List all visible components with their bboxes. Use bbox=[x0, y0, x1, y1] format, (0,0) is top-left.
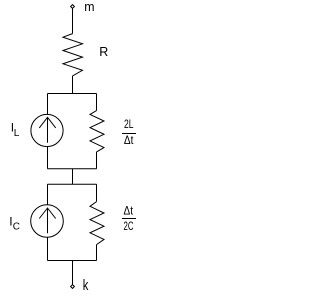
svg-text:R: R bbox=[99, 45, 108, 59]
svg-text:m: m bbox=[84, 0, 94, 14]
svg-text:L: L bbox=[14, 128, 20, 139]
svg-text:k: k bbox=[83, 277, 89, 294]
svg-text:C: C bbox=[13, 222, 20, 233]
svg-text:Δt: Δt bbox=[124, 204, 134, 218]
svg-text:Δt: Δt bbox=[124, 133, 134, 147]
svg-text:2C: 2C bbox=[124, 219, 134, 233]
svg-text:2L: 2L bbox=[124, 117, 134, 131]
